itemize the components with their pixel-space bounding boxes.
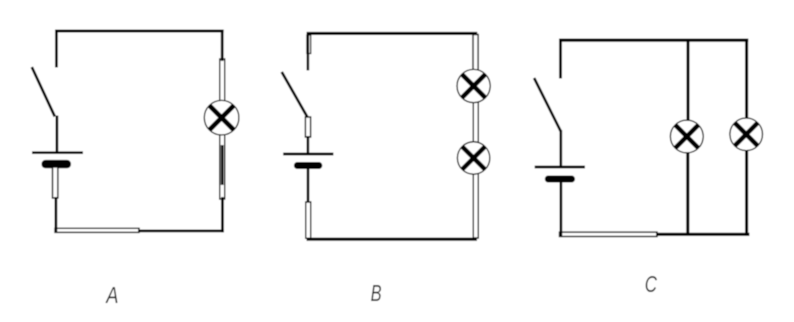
battery C positive plate	[535, 166, 585, 169]
lamp C2	[730, 118, 763, 151]
lamp B2	[457, 142, 489, 174]
wire B right upper (double line)	[473, 35, 478, 71]
battery C negative plate	[545, 176, 575, 183]
wire B top	[307, 32, 478, 35]
wire B bottom	[307, 238, 478, 241]
svg-text:C: C	[645, 271, 657, 297]
lamp A	[204, 100, 239, 135]
switch B blade	[282, 72, 308, 118]
wire C top	[559, 38, 748, 41]
svg-text:A: A	[105, 282, 119, 308]
battery A negative plate	[42, 160, 72, 168]
wire A right upper	[221, 30, 224, 62]
wire C bottom (solid part)	[656, 233, 749, 236]
battery B positive plate	[283, 153, 333, 156]
wire C bottom (double line part)	[560, 232, 658, 236]
wire A bottom (double line part)	[55, 228, 139, 232]
wire C left upper	[559, 39, 562, 79]
wire A left lower	[55, 197, 58, 232]
battery B negative plate	[294, 162, 322, 169]
wire B left upper	[307, 32, 310, 70]
wire B right lower (double line)	[473, 173, 478, 238]
wire A bottom (solid part)	[138, 229, 224, 232]
wire C right branch lower	[745, 151, 748, 236]
wire A right lamp lead overlay	[221, 145, 224, 185]
wire C middle branch upper	[686, 39, 689, 121]
wire B left mid (double line)	[305, 117, 310, 137]
switch A blade	[32, 67, 55, 116]
wire C left lower	[560, 182, 563, 236]
wire A left mid	[56, 116, 59, 154]
wire A right lower	[221, 197, 224, 232]
wire A top	[55, 30, 224, 33]
lamp C1	[670, 120, 703, 153]
wire B left upper lead (double line)	[307, 35, 311, 54]
wire B left lower solid	[307, 168, 310, 203]
wire A left upper	[55, 30, 58, 68]
wire A right lamp lead lower (double line)	[220, 134, 225, 199]
lamp B1	[457, 69, 490, 102]
wire C left mid	[559, 130, 562, 167]
wire B left lower (double line)	[306, 202, 311, 238]
wire C middle branch lower	[686, 153, 689, 236]
battery A positive plate	[32, 151, 83, 154]
wire A battery lead (double line)	[53, 167, 58, 198]
wire B right between lamps (double line)	[473, 101, 478, 143]
wire C right branch upper	[745, 39, 748, 119]
wire A right lamp lead upper (double line)	[220, 59, 225, 101]
svg-text:B: B	[371, 280, 382, 306]
switch C blade	[534, 78, 561, 131]
wire B left mid solid	[307, 136, 310, 155]
